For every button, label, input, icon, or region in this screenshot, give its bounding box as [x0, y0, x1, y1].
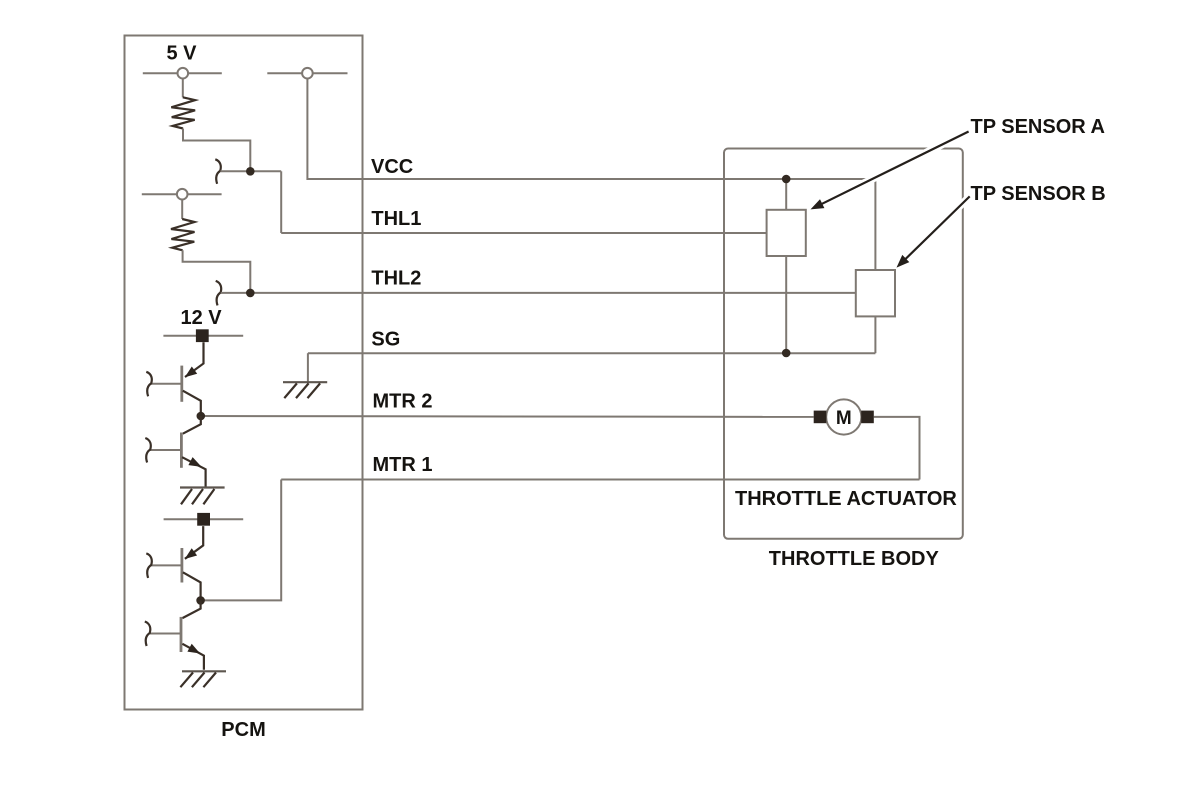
- TP sensor A box: [767, 210, 806, 256]
- svg-text:M: M: [836, 408, 852, 429]
- 12V terminal square S1: [196, 329, 209, 342]
- connector C4: [145, 438, 151, 463]
- connector C1: [215, 159, 221, 184]
- ground (Q2 emitter): [180, 488, 225, 505]
- transistor Q1 (PNP): [151, 342, 204, 416]
- transistor Q4 (NPN): [150, 600, 204, 669]
- wire THL2: [221, 292, 856, 294]
- svg-text:THL1: THL1: [371, 208, 421, 230]
- node J2: [246, 289, 255, 298]
- 12V terminal square S2: [197, 513, 210, 526]
- wire sensor B bottom: [874, 316, 876, 353]
- ground (Q4 emitter): [180, 671, 226, 687]
- leader arrow to sensor B: [897, 196, 970, 267]
- svg-text:TP SENSOR A: TP SENSOR A: [971, 116, 1105, 138]
- motor M1: [814, 399, 874, 434]
- transistor Q2 (NPN): [150, 416, 206, 487]
- connector C5: [146, 553, 152, 578]
- wire SG: [308, 352, 876, 354]
- svg-text:VCC: VCC: [371, 156, 413, 178]
- wire R1 to node J1: [183, 129, 250, 172]
- svg-text:5 V: 5 V: [167, 42, 198, 64]
- wire motor return: [874, 417, 920, 480]
- wire J1 to THL1: [280, 171, 282, 233]
- TP sensor B box: [856, 270, 895, 316]
- wire C1 to J1: [220, 170, 281, 172]
- svg-text:THROTTLE BODY: THROTTLE BODY: [769, 548, 940, 570]
- resistor R1: [171, 97, 195, 128]
- 12V rail 2: [164, 518, 244, 520]
- resistor R2: [171, 219, 195, 250]
- ground (SG): [283, 382, 327, 398]
- wire T2 to R2: [181, 199, 183, 219]
- PCM box: [125, 36, 363, 710]
- connector C2: [216, 281, 222, 306]
- leader arrow to sensor A: [811, 132, 969, 210]
- wire sensor A bottom: [785, 256, 787, 353]
- 5V terminal T2 (line + open circle): [142, 189, 222, 200]
- wire MTR2: [201, 415, 814, 418]
- wire THL1: [281, 232, 766, 234]
- 5V terminal T1 (line + open circle): [143, 68, 222, 79]
- wire MTR1: [281, 479, 919, 481]
- connector C6: [145, 622, 151, 647]
- svg-text:MTR 2: MTR 2: [373, 391, 433, 413]
- node J3: [197, 412, 206, 421]
- svg-text:SG: SG: [371, 329, 400, 351]
- wire T1 to R1: [182, 79, 184, 98]
- node J1: [246, 167, 255, 176]
- svg-text:THL2: THL2: [371, 268, 421, 290]
- wire sensor B top drop: [874, 179, 876, 270]
- svg-text:TP SENSOR B: TP SENSOR B: [971, 183, 1106, 205]
- svg-text:12 V: 12 V: [181, 307, 223, 329]
- node J4: [196, 596, 205, 605]
- wire SG ground stub: [307, 353, 309, 381]
- wire VCC: [307, 79, 875, 180]
- svg-text:MTR 1: MTR 1: [373, 454, 433, 476]
- VCC terminal T3 (line + open circle): [267, 68, 347, 79]
- wire R2 to node J2: [183, 250, 251, 293]
- transistor Q3 (PNP): [151, 526, 203, 600]
- 12V rail 1: [163, 335, 243, 337]
- wire sensor A top drop: [785, 179, 787, 210]
- connector C3: [146, 372, 152, 397]
- svg-text:THROTTLE ACTUATOR: THROTTLE ACTUATOR: [735, 488, 957, 510]
- node B (sensor A to SG): [782, 349, 791, 358]
- svg-text:PCM: PCM: [221, 719, 265, 741]
- node A (VCC to sensor A): [782, 175, 791, 184]
- wire J4 to MTR1: [201, 480, 282, 601]
- THROTTLE BODY box: [724, 149, 963, 539]
